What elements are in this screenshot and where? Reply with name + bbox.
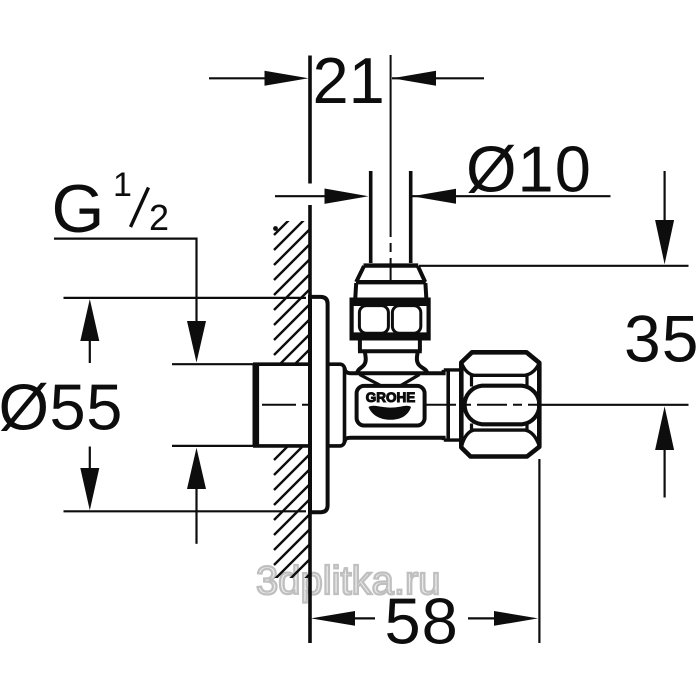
upper hex nut top band (352, 300, 429, 306)
compression nut top right arc (526, 364, 539, 375)
compression nut top left arc (462, 364, 474, 375)
wall line (308, 56, 312, 644)
valve body top edge (345, 368, 444, 374)
compression nut top facet line (472, 374, 528, 377)
valve neck washer edge (358, 349, 422, 353)
dimension 58 right arrow (468, 617, 497, 619)
upper nut collar sides (355, 283, 426, 300)
body chamfer left diagonal (360, 375, 382, 387)
compression nut facet connectors (472, 375, 528, 430)
upper hex nut bottom band (352, 332, 429, 338)
dimension Ø10 right arrow (412, 189, 456, 204)
dimension 58 left arrow (352, 617, 375, 619)
compression nut bottom facet line (472, 428, 528, 431)
flange escutcheon (310, 297, 328, 512)
G1/2 upper arrow (187, 321, 206, 363)
dimension Ø55 top extension (64, 297, 307, 299)
dimension Ø10 lines (275, 195, 611, 197)
svg-text:G: G (52, 171, 105, 247)
valve neck bell left side (357, 352, 366, 374)
svg-text:35: 35 (624, 302, 699, 376)
compression cone lower edge (356, 280, 426, 284)
dimension 35 top extension (419, 265, 689, 267)
svg-text:21: 21 (313, 44, 385, 117)
compression nut barrel (465, 386, 540, 425)
inlet tube top edge (253, 362, 308, 366)
dimension 35 lower arrow (663, 449, 665, 498)
upper hex nut left facet (359, 306, 388, 334)
svg-text:Ø10: Ø10 (466, 132, 592, 205)
compression cone sides (356, 266, 425, 282)
svg-text:GROHE: GROHE (366, 390, 416, 405)
inlet tube end face (253, 364, 260, 446)
valve centerline (nut segment) (426, 404, 540, 406)
svg-text:2: 2 (149, 197, 169, 238)
compression cone top edge (364, 263, 419, 267)
GROHE logo swoosh (369, 406, 412, 420)
compression nut bottom left arc (462, 430, 474, 444)
svg-text:Ø55: Ø55 (0, 370, 123, 443)
inlet top extension line (172, 363, 253, 365)
svg-text:1: 1 (113, 166, 132, 204)
dimension 35 lower line (540, 404, 689, 406)
dimension Ø55 top arrow (89, 340, 91, 363)
label plate (357, 386, 425, 426)
upper hex nut body (352, 300, 429, 339)
outlet collar (444, 370, 461, 440)
inlet bottom extension line (172, 445, 253, 447)
dimension 21 left arrow (209, 77, 484, 79)
G1/2 lower arrow (187, 448, 206, 489)
dimension Ø55 bottom extension (64, 510, 307, 512)
pipe centerline (vertical) (390, 55, 392, 282)
supply pipe walls (371, 171, 411, 263)
svg-text:58: 58 (385, 585, 459, 658)
dimension 35 upper arrow (663, 171, 665, 221)
dimension Ø10 left arrow (325, 189, 369, 204)
compression nut octagon (461, 352, 539, 456)
compression nut bottom right arc (526, 430, 539, 444)
dimension 58 right extension (538, 459, 540, 643)
upper hex nut right facet (392, 306, 420, 334)
hatch stray dot (273, 226, 278, 231)
valve neck tube (360, 339, 420, 351)
valve centerline (horizontal, inlet segment) (262, 404, 310, 406)
valve body bottom edge (345, 438, 444, 443)
valve neck bell right side (417, 352, 427, 374)
body chamfer right diagonal (400, 375, 420, 387)
inlet tube bottom edge (253, 444, 308, 448)
dimension 21 right arrow (392, 71, 436, 86)
dimension Ø55 bottom arrow (89, 447, 91, 470)
G1/2 leader line (54, 239, 197, 323)
G1/2 lower arrow line (195, 487, 197, 544)
wall hatching (274, 200, 309, 610)
wall boss (326, 364, 345, 446)
outlet collar seam (446, 370, 450, 440)
